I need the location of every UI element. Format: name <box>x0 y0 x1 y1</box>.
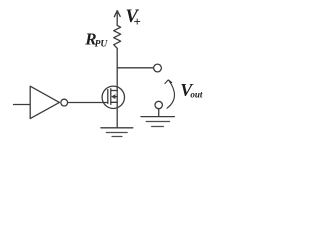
svg-text:+: + <box>133 14 140 29</box>
ground (reference) <box>141 117 174 127</box>
inverter U1 <box>30 86 67 118</box>
power rail V+ arrow <box>114 11 120 26</box>
terminal (reference node, open circle) <box>155 101 162 108</box>
Vout annotation arrow (curved) <box>165 80 175 108</box>
label R_PU <box>84 29 108 49</box>
wire (to output terminal) <box>117 67 153 69</box>
transistor Q1 (NMOS in circle) <box>102 86 124 108</box>
terminal (Vout node, open circle) <box>154 64 162 72</box>
ground (below Q1) <box>101 128 133 137</box>
wire (inverter input) <box>14 104 31 106</box>
svg-text:PU: PU <box>95 40 109 50</box>
wire (drain: resistor bottom to transistor) <box>116 48 118 90</box>
wire (terminal to ground) <box>158 109 160 117</box>
label V+ <box>126 7 141 29</box>
svg-text:out: out <box>190 89 203 99</box>
wire (inverter output to gate) <box>68 102 108 104</box>
resistor R_PU <box>114 25 121 48</box>
label Vout <box>180 80 203 100</box>
wire (source to ground) <box>116 102 118 127</box>
